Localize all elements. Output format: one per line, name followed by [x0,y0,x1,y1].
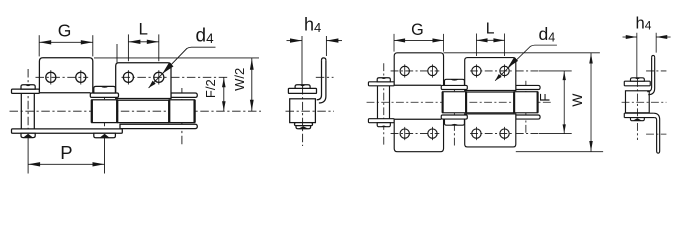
svg-text:L: L [486,21,495,38]
svg-text:G: G [58,21,72,41]
svg-text:L: L [138,20,147,39]
svg-text:F: F [537,93,553,101]
svg-text:W/2: W/2 [232,68,247,91]
svg-text:G: G [411,21,424,39]
svg-text:W: W [569,93,585,107]
svg-text:F/2: F/2 [203,79,218,98]
svg-text:P: P [60,142,72,163]
